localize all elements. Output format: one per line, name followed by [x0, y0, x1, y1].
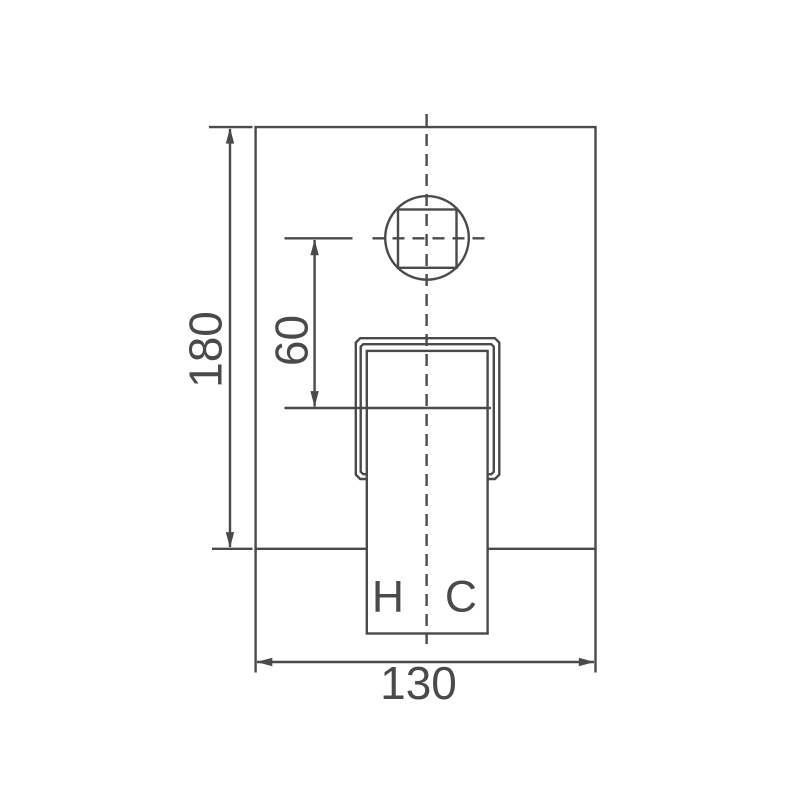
- svg-text:130: 130: [380, 657, 457, 709]
- extension line 60 bottom: [285, 407, 492, 409]
- arrow 130 right: [579, 658, 595, 667]
- arrow 60 top: [310, 239, 318, 255]
- vertical centerline: [425, 114, 427, 644]
- arrow 180 top: [226, 128, 234, 144]
- diverter square: [398, 210, 457, 268]
- svg-text:60: 60: [266, 315, 318, 366]
- arrow 180 bottom: [226, 532, 234, 548]
- diverter circle: [385, 196, 469, 280]
- dim line 180: [229, 129, 231, 547]
- dim line 130: [257, 661, 594, 663]
- handle frame outer: [356, 338, 500, 479]
- handle frame inner: [361, 344, 494, 474]
- svg-text:C: C: [445, 573, 477, 622]
- extension line 60 top: [285, 237, 353, 239]
- svg-text:H: H: [372, 573, 404, 622]
- arrow 130 left: [257, 658, 273, 667]
- extension line bottom-left: [212, 548, 253, 550]
- horizontal centerline: [373, 237, 485, 239]
- extension line top-left: [209, 126, 253, 128]
- svg-text:180: 180: [180, 311, 232, 388]
- extension line plate right lower: [594, 549, 596, 673]
- wall plate outline: [256, 127, 596, 549]
- arrow 60 bottom: [310, 391, 318, 407]
- dim line 60: [313, 240, 315, 407]
- extension line plate left lower: [254, 549, 256, 673]
- lever body: [367, 351, 488, 634]
